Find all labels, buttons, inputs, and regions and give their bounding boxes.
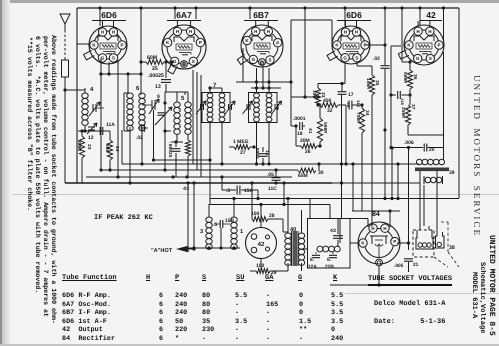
- svg-text:H: H: [428, 29, 431, 34]
- right margin UNITED MOTORS SERVICE: [472, 75, 482, 237]
- capacitor .02 coil6: [141, 124, 143, 132]
- svg-text:41: 41: [307, 128, 313, 134]
- capacitor 22B: [329, 254, 337, 256]
- svg-text:H: H: [254, 29, 257, 34]
- right margin Schematic,Voltage: [478, 262, 486, 333]
- wire 6B7 cathode row: [236, 81, 291, 83]
- svg-text:P: P: [276, 40, 279, 45]
- svg-text:.5: .5: [213, 222, 217, 228]
- svg-text:300M: 300M: [76, 140, 82, 151]
- margin note line 4: [26, 37, 33, 211]
- svg-text:.0005: .0005: [254, 145, 260, 159]
- output transformer 40 core: [293, 231, 298, 266]
- wire IF2 connections: [256, 68, 258, 93]
- field coil small: [425, 177, 431, 183]
- wire V1 pins to grid row: [100, 58, 102, 74]
- svg-text:H: H: [101, 30, 104, 35]
- svg-text:150M: 150M: [365, 78, 371, 89]
- IF transformer 7 box: [202, 93, 230, 123]
- chassis bus heavy: [65, 182, 332, 184]
- speaker plug socket: [246, 228, 277, 259]
- table header Tube Function: [62, 274, 117, 282]
- RF transformer coil 6 secondary: [139, 93, 145, 98]
- IF transformer 7 secondary: [219, 93, 225, 98]
- wire runs above 84: [339, 219, 341, 243]
- wire transformer 40 connections: [287, 199, 289, 234]
- IF transformer 7 right trimmer: [228, 104, 230, 110]
- svg-text:P: P: [393, 239, 396, 244]
- svg-text:1: 1: [240, 229, 243, 235]
- svg-text:4: 4: [90, 86, 94, 93]
- filter choke coil 1: [231, 217, 237, 222]
- svg-text:1 MEG: 1 MEG: [233, 139, 249, 145]
- tube V1 6D6 R-F amplifier: [89, 26, 127, 64]
- svg-text:G: G: [343, 55, 347, 60]
- 2nd IF right trimmer: [274, 104, 276, 110]
- table header G: [298, 274, 302, 282]
- table header K: [333, 274, 337, 282]
- wire bus drop to V1 grid: [99, 8, 101, 26]
- svg-text:H: H: [355, 30, 358, 35]
- wire coil6 bottoms: [129, 127, 131, 183]
- wire V3 plate run: [290, 20, 292, 126]
- trimmer capacitor on coil 4: [92, 104, 94, 112]
- svg-text:S: S: [269, 58, 272, 63]
- svg-text:.00025: .00025: [148, 73, 164, 79]
- hum bucking coil: [317, 246, 323, 252]
- svg-text:.005: .005: [394, 263, 404, 269]
- svg-text:11D: 11D: [355, 100, 360, 108]
- table header H: [146, 274, 150, 282]
- wire drops to coil 6: [127, 74, 129, 93]
- svg-text:6B7: 6B7: [253, 10, 269, 20]
- svg-text:IF PEAK 262 KC: IF PEAK 262 KC: [94, 214, 153, 222]
- svg-text:84: 84: [372, 211, 380, 218]
- 84 internals: [370, 235, 388, 237]
- svg-text:37: 37: [410, 104, 416, 110]
- svg-text:500M: 500M: [402, 72, 408, 83]
- svg-text:.0001: .0001: [293, 116, 306, 122]
- svg-text:42: 42: [426, 10, 436, 20]
- speaker plug coil: [418, 243, 422, 247]
- scan bottom edge band: [0, 344, 499, 346]
- capacitor 22A: [312, 254, 320, 256]
- 2nd IF transformer box: [249, 93, 278, 123]
- svg-text:6D6: 6D6: [101, 10, 117, 20]
- wire coil3/1 bottom row: [188, 247, 240, 249]
- fold line right lower: [345, 293, 499, 294]
- svg-text:H: H: [344, 30, 347, 35]
- wire bus row y170: [101, 169, 298, 171]
- TUBE SOCKET VOLTAGES title: [368, 275, 452, 286]
- 2nd IF transformer primary: [254, 93, 260, 98]
- svg-text:22A: 22A: [308, 264, 317, 270]
- svg-text:750M: 750M: [355, 112, 361, 123]
- IF transformer 7 left trimmer: [200, 104, 202, 110]
- trimmer arrow on oscillator coil: [155, 107, 172, 125]
- svg-text:.006: .006: [404, 140, 414, 146]
- svg-text:6D6: 6D6: [346, 10, 362, 20]
- speaker plug housing: [416, 230, 433, 249]
- fold line across page: [12, 194, 499, 195]
- wire bus drop to V4: [344, 8, 346, 26]
- margin note line 3: [34, 36, 41, 293]
- output transformer 40 primary: [285, 233, 291, 238]
- margin note line 2: [42, 36, 49, 317]
- table header P: [175, 274, 179, 282]
- wire grid row under V1: [99, 73, 141, 75]
- svg-text:6.: 6.: [327, 257, 331, 263]
- wire A-hot vertical: [193, 183, 195, 249]
- capacitor 11D .05: [348, 101, 350, 110]
- scan top edge band: [0, 0, 499, 3]
- RF transformer coil 6 primary: [127, 93, 133, 98]
- svg-text:39: 39: [449, 170, 455, 176]
- svg-text:23: 23: [86, 144, 92, 150]
- svg-text:S: S: [355, 55, 358, 60]
- wire drops into speaker plug: [419, 226, 421, 230]
- wire resistor bottoms to bus rows: [81, 158, 83, 183]
- svg-text:5: 5: [181, 95, 185, 102]
- svg-text:9: 9: [157, 94, 160, 100]
- svg-text:H: H: [112, 30, 115, 35]
- wire bus drop to V3: [249, 8, 251, 19]
- oscillator coil 5 primary: [174, 102, 180, 107]
- wire 42 plate drop: [443, 52, 445, 135]
- junction dots on B+ bus: [98, 6, 101, 9]
- scan left edge band: [0, 0, 2, 346]
- svg-text:13: 13: [155, 84, 161, 90]
- tube V2 6A7 oscillator-modulator: [162, 25, 206, 69]
- svg-text:30: 30: [318, 170, 324, 176]
- wire bus row y160: [154, 159, 211, 161]
- wire left edge vertical: [76, 8, 78, 183]
- table row 6D6 1st A-F: [62, 318, 107, 326]
- capacitor 17: [338, 91, 347, 93]
- resistor 32 450 ohm: [320, 103, 338, 108]
- svg-text:G: G: [173, 59, 177, 64]
- margin note line 1: [50, 35, 57, 324]
- resistor 28 100 ohm: [252, 217, 268, 222]
- speaker plug second housing: [436, 232, 445, 248]
- antenna: [60, 14, 70, 24]
- svg-text:42: 42: [258, 241, 265, 248]
- wire box connections: [302, 248, 308, 250]
- svg-text:500: 500: [104, 144, 110, 153]
- table header S: [202, 274, 206, 282]
- right margin UNITED MOTOR PAGE 8-5: [487, 235, 496, 336]
- svg-text:33: 33: [320, 92, 326, 98]
- resistor 27 1 MEG: [234, 145, 250, 150]
- speaker dashed box: [413, 230, 434, 257]
- speaker dashed leads: [447, 222, 449, 252]
- svg-text:11A: 11A: [106, 122, 115, 128]
- svg-text:350: 350: [311, 90, 317, 99]
- wire 84 connections: [367, 219, 369, 228]
- wire V4 plate to .02: [365, 44, 385, 46]
- svg-text:H: H: [267, 29, 270, 34]
- wire 42 cathode to left rail: [391, 45, 401, 47]
- svg-text:11C: 11C: [268, 186, 277, 192]
- svg-text:.00025: .00025: [167, 141, 173, 158]
- capacitor .00025 oscillator: [172, 148, 181, 150]
- resistor 36 500M: [407, 70, 412, 89]
- Delco Model 631-A: [374, 300, 445, 308]
- resistor 34 750M: [359, 108, 364, 133]
- wire antenna to coil 4: [65, 89, 85, 91]
- svg-text:H: H: [176, 29, 179, 34]
- svg-text:P: P: [438, 43, 441, 48]
- wire IF7 connections: [209, 88, 211, 93]
- svg-text:34: 34: [364, 110, 370, 116]
- IF transformer 7 primary: [207, 93, 213, 98]
- svg-text:18: 18: [297, 131, 303, 137]
- wire bottom row under 84: [330, 284, 440, 286]
- wire bus drops to V5: [419, 8, 421, 25]
- voice coil network box: [308, 219, 351, 269]
- svg-text:35: 35: [374, 80, 380, 86]
- wire bus row y177: [86, 176, 292, 178]
- capacitor 11B: [397, 91, 399, 99]
- resistor 30 65M: [298, 168, 316, 173]
- wire bus drop x305: [304, 8, 306, 97]
- tube V5 42 output: [404, 25, 444, 65]
- svg-text:3: 3: [200, 229, 203, 235]
- svg-text:450: 450: [323, 98, 332, 104]
- resistor 500M V4 grid: [317, 118, 322, 142]
- svg-text:"A"HOT: "A"HOT: [151, 248, 173, 254]
- wire heater stubs to label rails: [102, 21, 104, 28]
- resistor 26 20M: [301, 144, 317, 149]
- svg-text:11B: 11B: [399, 98, 404, 106]
- wire verticals into bus rows: [100, 74, 102, 170]
- svg-text:24: 24: [114, 146, 120, 152]
- svg-text:15B: 15B: [225, 218, 235, 224]
- right margin MODEL 631-A: [470, 272, 478, 318]
- table row 42 Output: [62, 326, 103, 334]
- wire junction row y97: [291, 96, 318, 98]
- svg-text:32: 32: [327, 108, 333, 114]
- resistor 29 100 ohm: [256, 269, 270, 274]
- svg-text:36: 36: [412, 74, 418, 80]
- antenna coil 4: [82, 93, 88, 98]
- svg-text:P: P: [199, 40, 202, 45]
- svg-text:.02: .02: [373, 56, 380, 62]
- svg-text:60M: 60M: [147, 55, 157, 61]
- wire V1 cathode to left: [77, 43, 89, 45]
- svg-text:G: G: [416, 56, 420, 61]
- svg-text:.5: .5: [226, 188, 230, 194]
- svg-text:22B: 22B: [325, 264, 334, 270]
- top B+ bus wire: [77, 7, 459, 9]
- tube V6 84 rectifier: [358, 222, 400, 264]
- wire V2 cathode branch: [166, 91, 185, 93]
- wire verticals right section: [352, 164, 354, 211]
- trimmer capacitor 12: [88, 126, 95, 128]
- wire .006 row to 84 plate: [408, 148, 410, 251]
- oscillator padder trimmer: [158, 112, 165, 114]
- svg-text:17: 17: [348, 92, 354, 98]
- svg-text:P: P: [121, 43, 124, 48]
- wire coil4 bottom: [84, 125, 86, 131]
- svg-text:27: 27: [240, 150, 246, 156]
- svg-text:500M: 500M: [322, 122, 328, 133]
- table row 6B7 I-F Amp.: [62, 309, 111, 317]
- svg-text:43: 43: [330, 228, 336, 234]
- tube V4 6D6 1st audio: [332, 26, 370, 64]
- resistor 23 300M: [79, 136, 84, 158]
- wire bus drops to V2: [195, 8, 197, 19]
- svg-text:12: 12: [88, 135, 94, 141]
- svg-text:S: S: [112, 56, 115, 61]
- resistor 37 250M: [405, 105, 410, 125]
- table row 6D6 R-F Amp.: [62, 292, 111, 300]
- wire horizontal y198: [210, 198, 459, 200]
- svg-text:38: 38: [449, 245, 455, 251]
- output choke 39 coil: [417, 159, 423, 165]
- tube V3 6B7 I-F amplifier: [241, 25, 283, 67]
- svg-text:20M: 20M: [300, 138, 310, 144]
- svg-text:H: H: [417, 29, 420, 34]
- svg-text:25: 25: [152, 66, 158, 72]
- resistor oscillator grid leak: [185, 140, 190, 156]
- table row 6A7 Osc-Mod.: [62, 301, 111, 309]
- svg-text:6.: 6.: [310, 257, 314, 263]
- svg-text:S: S: [192, 59, 195, 64]
- svg-text:H: H: [189, 29, 192, 34]
- resistor 35 150M: [369, 75, 374, 95]
- resistor 25 60M ohm: [146, 60, 164, 65]
- output transformer 40 secondary: [298, 233, 304, 238]
- Date 5-1-36: [374, 318, 445, 326]
- wire coil5 top connections: [164, 92, 166, 170]
- svg-text:250M: 250M: [400, 107, 406, 118]
- svg-text:G: G: [252, 57, 256, 62]
- svg-text:H: H: [383, 226, 386, 231]
- svg-text:S: S: [429, 56, 432, 61]
- wire coil3/1 tops: [208, 204, 210, 217]
- 2nd IF left trimmer: [246, 104, 248, 110]
- wire verticals under V2: [192, 70, 194, 164]
- capacitor 11C .05: [272, 177, 281, 179]
- wire bus row y164: [122, 163, 419, 165]
- 2nd IF transformer secondary: [266, 93, 272, 98]
- wire coil6 frame: [123, 93, 125, 131]
- table header GA: [265, 274, 273, 282]
- table row 84 Rectifier: [62, 335, 115, 343]
- wire choke to field coil: [419, 171, 421, 226]
- svg-text:6A7: 6A7: [176, 10, 192, 20]
- svg-text:26: 26: [305, 149, 311, 155]
- capacitor 11A: [99, 127, 101, 135]
- resistor 33 350 ohm: [315, 88, 320, 106]
- svg-text:65M: 65M: [298, 173, 308, 179]
- svg-text:100: 100: [256, 263, 265, 269]
- filter choke coil 3: [206, 217, 212, 222]
- oscillator coil 5 secondary: [185, 102, 191, 107]
- svg-text:28: 28: [269, 213, 275, 219]
- wire coil5 bottom connections: [176, 134, 178, 142]
- trimmer capacitor 9: [151, 100, 153, 110]
- resistor 24 500 ohm: [107, 140, 112, 160]
- wire right edge vertical: [458, 8, 460, 198]
- capacitor 43: [333, 235, 343, 237]
- svg-text:6: 6: [136, 85, 140, 92]
- svg-text:21: 21: [413, 262, 419, 268]
- table header SU: [236, 274, 244, 282]
